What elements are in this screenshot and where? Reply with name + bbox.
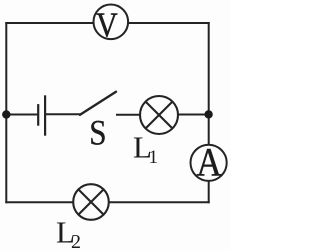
wire right vertical lower (208, 182, 210, 202)
wire bottom-right segment (110, 201, 209, 203)
lamp L1 (140, 96, 178, 134)
svg-text:2: 2 (71, 231, 81, 251)
lamp L2 (73, 184, 109, 220)
wire bottom-left segment (6, 201, 72, 203)
battery cell (long positive plate) (44, 95, 46, 135)
wire lamp L1 to right node (179, 114, 209, 116)
svg-text:S: S (89, 114, 106, 154)
svg-text:V: V (96, 7, 118, 46)
wire left vertical (5, 23, 7, 202)
wire switch to lamp L1 (117, 114, 140, 116)
wire middle branch: node to battery (6, 114, 37, 116)
wire top-right segment (129, 22, 209, 24)
node right junction (204, 110, 212, 118)
svg-text:1: 1 (149, 147, 159, 168)
wire battery to switch (45, 113, 80, 115)
wire top-left segment (6, 22, 92, 24)
svg-text:A: A (196, 140, 222, 185)
voltmeter U1 (V) (94, 5, 129, 40)
node left junction (2, 110, 10, 118)
switch S blade (80, 92, 116, 115)
wire right vertical upper (208, 23, 210, 144)
battery cell (short negative plate) (37, 104, 39, 126)
ammeter U2 (A) (191, 145, 227, 181)
